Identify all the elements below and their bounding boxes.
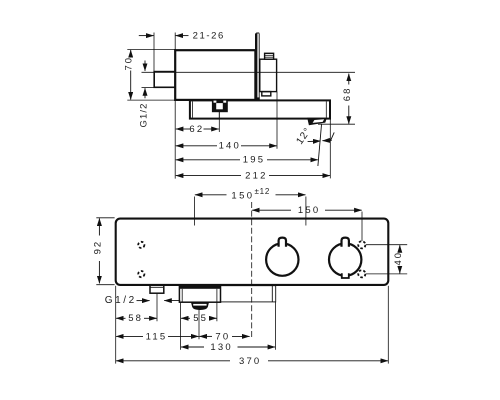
svg-text:140: 140 (219, 141, 241, 152)
svg-text:195: 195 (243, 155, 265, 166)
svg-text:70: 70 (124, 56, 135, 71)
svg-text:40: 40 (393, 251, 404, 266)
svg-text:21-26: 21-26 (193, 31, 225, 42)
svg-text:212: 212 (245, 171, 267, 182)
svg-text:G1/2: G1/2 (139, 103, 150, 128)
svg-text:G1/2: G1/2 (105, 295, 137, 306)
svg-text:58: 58 (128, 313, 143, 324)
svg-text:370: 370 (239, 356, 261, 367)
svg-text:92: 92 (93, 240, 104, 255)
svg-text:115: 115 (146, 332, 168, 343)
svg-text:12°: 12° (294, 126, 313, 147)
svg-text:150±12: 150±12 (231, 187, 270, 201)
svg-text:55: 55 (193, 313, 208, 324)
svg-text:68: 68 (342, 87, 353, 102)
svg-text:150: 150 (298, 205, 320, 216)
svg-text:62: 62 (189, 124, 204, 135)
svg-text:70: 70 (215, 332, 230, 343)
svg-text:130: 130 (210, 342, 232, 353)
